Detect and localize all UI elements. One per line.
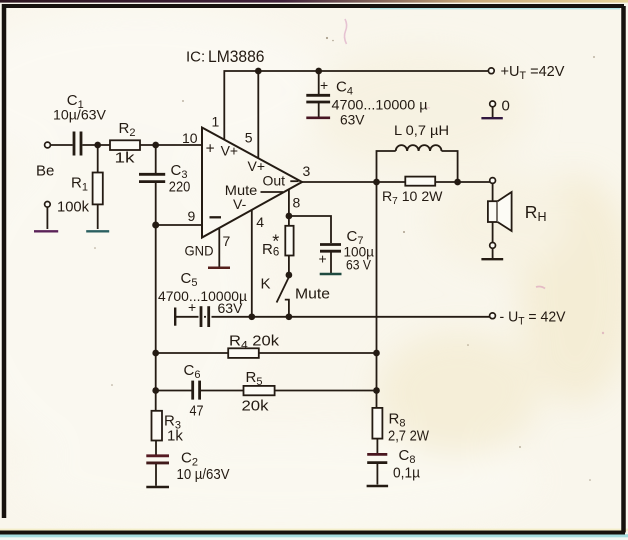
svg-text:47: 47 — [190, 403, 204, 420]
svg-text:3: 3 — [303, 163, 311, 179]
svg-text:1: 1 — [212, 114, 220, 130]
svg-text:LM3886: LM3886 — [208, 48, 265, 66]
svg-text:+UT =42V: +UT =42V — [501, 63, 565, 82]
svg-text:7: 7 — [223, 233, 231, 249]
svg-text:0,1µ: 0,1µ — [393, 465, 420, 482]
svg-text:GND: GND — [185, 243, 214, 259]
svg-text:9: 9 — [188, 208, 196, 224]
svg-text:63 V: 63 V — [346, 257, 372, 273]
svg-text:5: 5 — [245, 129, 253, 145]
svg-text:- UT = 42V: - UT = 42V — [500, 309, 566, 328]
svg-text:220: 220 — [169, 180, 191, 196]
svg-text:R4 20k: R4 20k — [229, 333, 280, 352]
svg-text:K: K — [261, 276, 271, 293]
svg-text:100k: 100k — [57, 199, 89, 216]
svg-text:10: 10 — [182, 130, 198, 146]
svg-text:4700...10000 µ: 4700...10000 µ — [332, 97, 428, 113]
svg-text:*: * — [272, 232, 279, 252]
svg-text:63V: 63V — [340, 112, 365, 128]
svg-text:IC:: IC: — [186, 49, 205, 66]
svg-text:Mute: Mute — [295, 286, 330, 303]
svg-text:Be: Be — [36, 163, 54, 180]
svg-text:4: 4 — [256, 214, 264, 230]
svg-text:1k: 1k — [115, 150, 136, 167]
svg-text:0: 0 — [502, 98, 510, 115]
svg-text:8: 8 — [293, 195, 301, 211]
svg-text:63V: 63V — [218, 300, 244, 316]
svg-text:2,7 2W: 2,7 2W — [388, 428, 430, 445]
svg-text:+: + — [188, 299, 196, 315]
svg-text:V+: V+ — [221, 143, 239, 159]
svg-text:+: + — [319, 251, 327, 267]
svg-text:L 0,7 µH: L 0,7 µH — [394, 122, 449, 138]
svg-text:1k: 1k — [167, 427, 183, 444]
svg-text:Out: Out — [263, 173, 286, 189]
svg-text:+: + — [320, 77, 328, 93]
svg-text:+: + — [206, 140, 215, 157]
svg-text:10 µ/63V: 10 µ/63V — [177, 466, 230, 483]
svg-text:V-: V- — [233, 196, 247, 212]
svg-text:10µ/63V: 10µ/63V — [53, 107, 107, 123]
svg-text:20k: 20k — [242, 398, 270, 415]
